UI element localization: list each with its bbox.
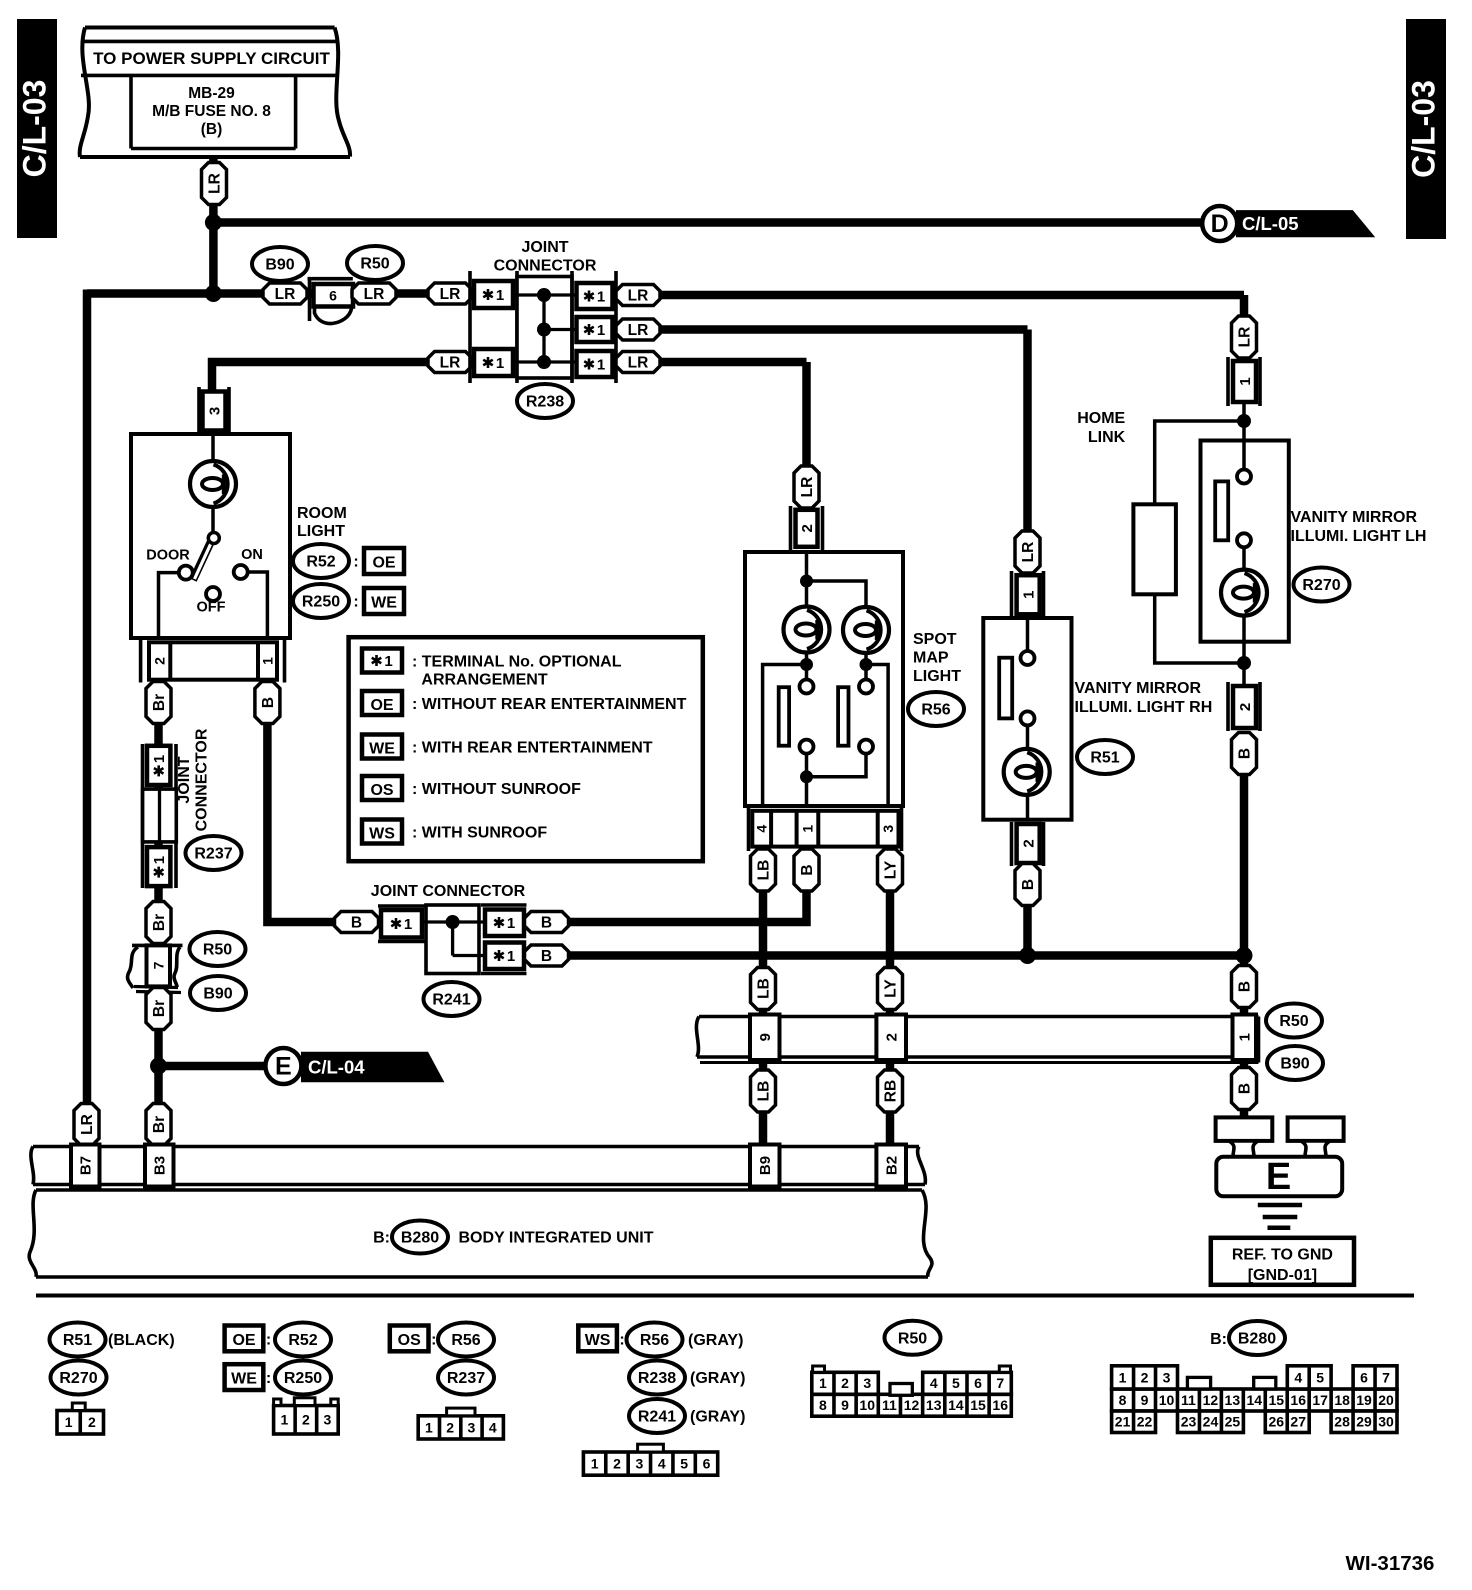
svg-text:23: 23 <box>1181 1414 1197 1430</box>
svg-text:2: 2 <box>1141 1369 1149 1385</box>
svg-text:WE: WE <box>231 1371 257 1388</box>
svg-text:B280: B280 <box>1238 1331 1276 1348</box>
svg-text:2: 2 <box>1020 839 1037 847</box>
svg-text:OS: OS <box>370 782 393 799</box>
svg-text:8: 8 <box>1119 1392 1127 1408</box>
svg-text:4: 4 <box>754 825 770 833</box>
svg-text:29: 29 <box>1356 1414 1372 1430</box>
svg-text:JOINT: JOINT <box>521 239 568 256</box>
svg-text:1: 1 <box>507 915 515 932</box>
svg-text:VANITY MIRROR: VANITY MIRROR <box>1075 680 1202 697</box>
svg-text:R270: R270 <box>59 1370 97 1387</box>
svg-text:R238: R238 <box>526 394 564 411</box>
svg-text:B: B <box>799 864 816 875</box>
svg-text:2: 2 <box>302 1412 310 1428</box>
svg-text:(B): (B) <box>201 121 223 138</box>
svg-text:2: 2 <box>613 1456 621 1472</box>
svg-text:WE: WE <box>369 741 395 758</box>
svg-text:E: E <box>275 1053 292 1081</box>
svg-text:LR: LR <box>1020 542 1037 563</box>
svg-text:C/L-03: C/L-03 <box>1406 80 1442 178</box>
svg-text:1: 1 <box>1020 591 1037 599</box>
svg-text:LR: LR <box>628 322 649 339</box>
svg-text:JOINT CONNECTOR: JOINT CONNECTOR <box>371 883 526 900</box>
svg-text:R56: R56 <box>921 702 950 719</box>
svg-text:ILLUMI. LIGHT RH: ILLUMI. LIGHT RH <box>1075 699 1213 716</box>
svg-text:B: B <box>1236 981 1253 992</box>
svg-text:WS: WS <box>585 1332 611 1349</box>
svg-text:R50: R50 <box>360 256 389 273</box>
svg-text:1: 1 <box>496 287 504 304</box>
svg-text:30: 30 <box>1378 1414 1394 1430</box>
svg-text:RB: RB <box>882 1080 899 1102</box>
svg-text:R237: R237 <box>194 846 232 863</box>
svg-text:1: 1 <box>507 948 515 965</box>
svg-text:27: 27 <box>1290 1414 1306 1430</box>
svg-text:9: 9 <box>757 1033 774 1041</box>
svg-text:26: 26 <box>1268 1414 1284 1430</box>
svg-text:B:: B: <box>373 1230 390 1247</box>
svg-text:12: 12 <box>904 1397 920 1413</box>
svg-text:3: 3 <box>863 1375 871 1391</box>
svg-text:5: 5 <box>680 1456 688 1472</box>
svg-text:: WITHOUT SUNROOF: : WITHOUT SUNROOF <box>412 781 581 798</box>
svg-text:1: 1 <box>819 1375 827 1391</box>
svg-text:OE: OE <box>370 697 393 714</box>
svg-text:1: 1 <box>384 653 392 670</box>
svg-text:2: 2 <box>883 1033 900 1041</box>
svg-text:LIGHT: LIGHT <box>913 668 961 685</box>
svg-text:(GRAY): (GRAY) <box>690 1370 745 1387</box>
svg-text:SPOT: SPOT <box>913 631 957 648</box>
svg-text:R238: R238 <box>638 1370 676 1387</box>
svg-text:B90: B90 <box>265 257 294 274</box>
svg-text:B9: B9 <box>757 1156 774 1175</box>
svg-text:OE: OE <box>372 555 395 572</box>
svg-text:R50: R50 <box>1279 1013 1308 1030</box>
svg-text::: : <box>353 594 358 611</box>
svg-text:3: 3 <box>880 825 896 833</box>
svg-text:1: 1 <box>496 355 504 372</box>
svg-text:4: 4 <box>1294 1369 1302 1385</box>
svg-text:1: 1 <box>1237 1033 1254 1041</box>
svg-text:5: 5 <box>952 1375 960 1391</box>
svg-text:B: B <box>541 948 552 965</box>
svg-text:1: 1 <box>151 755 168 763</box>
svg-text:Br: Br <box>151 914 168 931</box>
svg-text:R241: R241 <box>432 992 470 1009</box>
svg-text:LB: LB <box>755 1081 772 1102</box>
svg-text::: : <box>431 1332 436 1349</box>
svg-text:3: 3 <box>1163 1369 1171 1385</box>
svg-text:B:: B: <box>1210 1331 1227 1348</box>
svg-text:14: 14 <box>1247 1392 1263 1408</box>
svg-text:: WITH REAR ENTERTAINMENT: : WITH REAR ENTERTAINMENT <box>412 740 653 757</box>
svg-text:ROOM: ROOM <box>297 505 347 522</box>
svg-text:11: 11 <box>1181 1392 1196 1408</box>
svg-text:LR: LR <box>440 354 461 371</box>
svg-text:6: 6 <box>974 1375 982 1391</box>
svg-text:LIGHT: LIGHT <box>297 523 345 540</box>
svg-text:MAP: MAP <box>913 650 949 667</box>
svg-text:4: 4 <box>489 1419 497 1435</box>
svg-text:24: 24 <box>1203 1414 1219 1430</box>
svg-text:R56: R56 <box>451 1332 480 1349</box>
svg-text:18: 18 <box>1334 1392 1350 1408</box>
svg-text:10: 10 <box>859 1397 875 1413</box>
svg-text:16: 16 <box>1290 1392 1306 1408</box>
svg-text:3: 3 <box>635 1456 643 1472</box>
svg-text:LB: LB <box>755 978 772 999</box>
svg-text:ARRANGEMENT: ARRANGEMENT <box>421 672 547 689</box>
svg-text:LR: LR <box>628 287 649 304</box>
svg-text:(GRAY): (GRAY) <box>688 1332 743 1349</box>
svg-text:LR: LR <box>799 477 816 498</box>
svg-text:6: 6 <box>703 1456 711 1472</box>
svg-text:R237: R237 <box>447 1370 485 1387</box>
svg-text:HOME: HOME <box>1077 410 1125 427</box>
svg-text:R56: R56 <box>640 1332 669 1349</box>
svg-text:1: 1 <box>1119 1369 1127 1385</box>
svg-text:R241: R241 <box>638 1409 676 1426</box>
svg-text:LR: LR <box>440 286 461 303</box>
svg-text:25: 25 <box>1225 1414 1241 1430</box>
svg-text:16: 16 <box>992 1397 1008 1413</box>
svg-text:7: 7 <box>150 961 166 969</box>
svg-text:(BLACK): (BLACK) <box>108 1332 175 1349</box>
svg-text:REF. TO GND: REF. TO GND <box>1232 1247 1333 1264</box>
svg-text:CONNECTOR: CONNECTOR <box>194 728 211 831</box>
svg-text:20: 20 <box>1378 1392 1394 1408</box>
svg-text:7: 7 <box>1382 1369 1390 1385</box>
svg-text:6: 6 <box>1360 1369 1368 1385</box>
svg-text:OFF: OFF <box>197 600 226 616</box>
svg-text:LR: LR <box>79 1114 96 1135</box>
svg-text:TO POWER SUPPLY CIRCUIT: TO POWER SUPPLY CIRCUIT <box>93 49 330 68</box>
svg-text:1: 1 <box>259 657 275 665</box>
svg-text:LY: LY <box>882 860 899 879</box>
svg-text:1: 1 <box>799 825 815 833</box>
svg-text:2: 2 <box>446 1419 454 1435</box>
svg-text:B90: B90 <box>1280 1056 1309 1073</box>
svg-text:LB: LB <box>755 860 772 881</box>
svg-text:C/L-04: C/L-04 <box>308 1057 365 1078</box>
svg-text:2: 2 <box>799 524 816 532</box>
svg-text:D: D <box>1211 210 1229 238</box>
svg-text:6: 6 <box>329 288 337 304</box>
svg-text:R52: R52 <box>288 1332 317 1349</box>
svg-text:Br: Br <box>151 1000 168 1017</box>
svg-text:JOINT: JOINT <box>176 756 193 803</box>
svg-text:(GRAY): (GRAY) <box>690 1409 745 1426</box>
svg-text:2: 2 <box>1237 703 1254 711</box>
svg-text:B3: B3 <box>152 1156 169 1175</box>
svg-text:2: 2 <box>88 1414 96 1430</box>
svg-text:ON: ON <box>241 547 263 563</box>
svg-text:WS: WS <box>369 826 395 843</box>
svg-text:28: 28 <box>1334 1414 1350 1430</box>
svg-text:B: B <box>1236 748 1253 759</box>
svg-text:B: B <box>351 914 362 931</box>
svg-text:R51: R51 <box>1090 750 1119 767</box>
svg-text:13: 13 <box>1225 1392 1241 1408</box>
svg-text:1: 1 <box>597 288 605 305</box>
svg-text:B7: B7 <box>78 1156 95 1175</box>
svg-text:WE: WE <box>371 595 397 612</box>
svg-text:12: 12 <box>1203 1392 1219 1408</box>
svg-text:1: 1 <box>404 916 412 933</box>
svg-text:21: 21 <box>1115 1414 1131 1430</box>
svg-text:LR: LR <box>364 286 385 303</box>
svg-text:B: B <box>260 697 277 708</box>
svg-text:: WITH SUNROOF: : WITH SUNROOF <box>412 825 547 842</box>
svg-text:14: 14 <box>948 1397 964 1413</box>
svg-text::: : <box>619 1332 624 1349</box>
svg-text:Br: Br <box>151 1116 168 1133</box>
svg-text:Br: Br <box>151 694 168 711</box>
svg-text:22: 22 <box>1137 1414 1153 1430</box>
svg-text:1: 1 <box>591 1456 599 1472</box>
svg-text:3: 3 <box>468 1419 476 1435</box>
svg-text:BODY INTEGRATED UNIT: BODY INTEGRATED UNIT <box>459 1230 654 1247</box>
svg-text:C/L-03: C/L-03 <box>17 80 53 178</box>
svg-text:15: 15 <box>1268 1392 1284 1408</box>
svg-text:VANITY MIRROR: VANITY MIRROR <box>1291 509 1418 526</box>
svg-text:OS: OS <box>398 1332 421 1349</box>
svg-text:LR: LR <box>1236 327 1253 348</box>
svg-text:[GND-01]: [GND-01] <box>1248 1267 1317 1284</box>
svg-text:: TERMINAL No. OPTIONAL: : TERMINAL No. OPTIONAL <box>412 654 622 671</box>
svg-text:R270: R270 <box>1302 577 1340 594</box>
svg-text:13: 13 <box>926 1397 942 1413</box>
svg-text:1: 1 <box>280 1412 288 1428</box>
svg-text:LY: LY <box>882 979 899 998</box>
svg-text:11: 11 <box>882 1397 897 1413</box>
svg-text:MB-29: MB-29 <box>188 85 235 102</box>
svg-text:E: E <box>1266 1156 1291 1198</box>
svg-text:2: 2 <box>152 657 168 665</box>
svg-text:1: 1 <box>597 322 605 339</box>
svg-text:1: 1 <box>1237 377 1254 385</box>
svg-text:R50: R50 <box>203 942 232 959</box>
svg-text:5: 5 <box>1316 1369 1324 1385</box>
svg-text:15: 15 <box>970 1397 986 1413</box>
svg-text:LR: LR <box>628 354 649 371</box>
svg-text:8: 8 <box>819 1397 827 1413</box>
svg-text:B: B <box>1020 879 1037 890</box>
svg-text::: : <box>353 554 358 571</box>
svg-text:DOOR: DOOR <box>146 548 190 564</box>
svg-text:4: 4 <box>930 1375 938 1391</box>
svg-text:R52: R52 <box>306 554 335 571</box>
svg-text:LINK: LINK <box>1088 429 1126 446</box>
svg-text:B2: B2 <box>883 1156 900 1175</box>
svg-text:R50: R50 <box>898 1330 927 1347</box>
svg-text:R250: R250 <box>284 1370 322 1387</box>
svg-text:B: B <box>541 914 552 931</box>
svg-text::: : <box>266 1370 271 1387</box>
svg-text:7: 7 <box>996 1375 1004 1391</box>
svg-text:10: 10 <box>1159 1392 1175 1408</box>
svg-text:17: 17 <box>1312 1392 1328 1408</box>
svg-text:ILLUMI. LIGHT LH: ILLUMI. LIGHT LH <box>1291 528 1427 545</box>
svg-text:LR: LR <box>275 286 296 303</box>
svg-text:CONNECTOR: CONNECTOR <box>494 258 597 275</box>
svg-text::: : <box>266 1332 271 1349</box>
svg-text:R250: R250 <box>302 594 340 611</box>
svg-text:3: 3 <box>324 1412 332 1428</box>
svg-text:9: 9 <box>841 1397 849 1413</box>
svg-text:WI-31736: WI-31736 <box>1346 1552 1435 1575</box>
svg-text:9: 9 <box>1141 1392 1149 1408</box>
svg-text:B280: B280 <box>401 1230 439 1247</box>
svg-text:B: B <box>1236 1083 1253 1094</box>
svg-text:1: 1 <box>597 356 605 373</box>
svg-text:19: 19 <box>1356 1392 1372 1408</box>
svg-text:R51: R51 <box>63 1332 92 1349</box>
svg-text:1: 1 <box>425 1419 433 1435</box>
svg-text:: WITHOUT REAR ENTERTAINMENT: : WITHOUT REAR ENTERTAINMENT <box>412 696 687 713</box>
svg-text:1: 1 <box>151 856 168 864</box>
svg-text:OE: OE <box>232 1332 255 1349</box>
svg-text:4: 4 <box>658 1456 666 1472</box>
svg-text:C/L-05: C/L-05 <box>1242 213 1299 234</box>
svg-text:B90: B90 <box>203 986 232 1003</box>
svg-text:2: 2 <box>841 1375 849 1391</box>
svg-text:3: 3 <box>206 407 223 415</box>
svg-text:LR: LR <box>206 173 223 194</box>
svg-text:M/B FUSE NO. 8: M/B FUSE NO. 8 <box>152 103 271 120</box>
svg-text:1: 1 <box>65 1414 73 1430</box>
